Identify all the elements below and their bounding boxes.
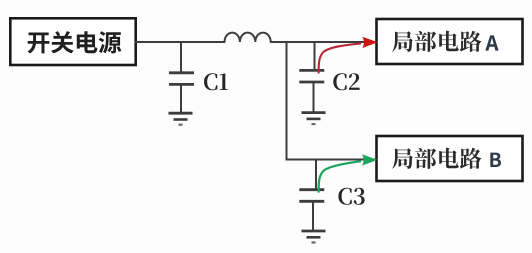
wire: C3 branch stub bbox=[315, 160, 317, 190]
wire: main horizontal net (supply output) bbox=[135, 41, 225, 43]
capacitor C2 bbox=[299, 70, 324, 82]
red noise-coupling arrow from C2 toward local circuit A bbox=[319, 37, 378, 74]
box: local circuit B (局部电路 B) bbox=[377, 136, 523, 181]
label 局部电路 A bbox=[392, 31, 499, 52]
capacitor C3 bbox=[299, 190, 324, 202]
capacitor C1 bbox=[169, 73, 194, 85]
inductor L (3 humps) bbox=[225, 33, 271, 42]
label C3 bbox=[338, 188, 364, 205]
wire: from inductor to local circuit A box bbox=[271, 41, 376, 43]
box: switching power supply (开关电源) bbox=[10, 18, 135, 65]
green noise-coupling arrow from C3 toward local circuit B bbox=[319, 154, 378, 192]
wire: C2 branch stub bbox=[314, 42, 316, 70]
box: local circuit A (局部电路 A) bbox=[377, 19, 523, 64]
wire: C3 lower stub bbox=[312, 202, 314, 230]
label C2 bbox=[333, 73, 359, 90]
wire: vertical drop from node after inductor bbox=[286, 41, 288, 161]
label 局部电路 B bbox=[392, 148, 501, 169]
wire: lower horizontal net to local circuit B box bbox=[286, 159, 377, 161]
wire: C2 lower stub bbox=[313, 83, 315, 112]
wire: C1 branch stub bbox=[180, 42, 182, 72]
wire: C1 lower stub bbox=[180, 85, 182, 112]
label C1 bbox=[204, 73, 228, 90]
label 开关电源 bbox=[28, 31, 122, 53]
ground symbol below C2 bbox=[302, 113, 326, 125]
ground symbol below C3 bbox=[302, 231, 326, 243]
ground symbol below C1 bbox=[169, 113, 193, 125]
